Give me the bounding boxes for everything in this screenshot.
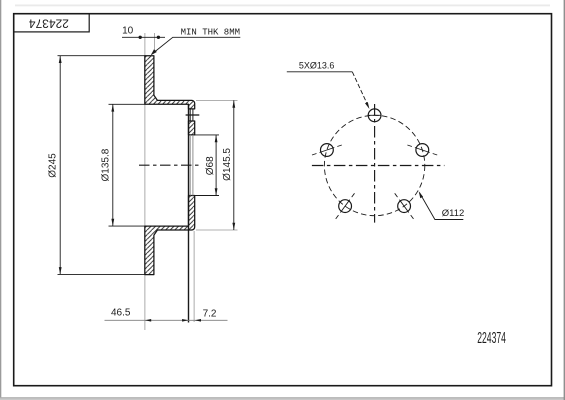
svg-text:Ø135.8: Ø135.8 — [100, 148, 111, 181]
svg-text:Ø68: Ø68 — [205, 156, 216, 175]
svg-text:224374: 224374 — [477, 328, 506, 347]
svg-text:46.5: 46.5 — [111, 308, 131, 319]
svg-text:Ø145.5: Ø145.5 — [222, 148, 233, 181]
svg-text:7.2: 7.2 — [203, 308, 217, 319]
svg-text:Ø112: Ø112 — [442, 208, 465, 219]
svg-text:10: 10 — [122, 26, 134, 37]
svg-text:MIN THK 8MM: MIN THK 8MM — [181, 27, 240, 37]
svg-text:5XØ13.6: 5XØ13.6 — [299, 60, 335, 70]
svg-text:Ø245: Ø245 — [47, 153, 58, 178]
svg-text:224374: 224374 — [29, 16, 69, 30]
